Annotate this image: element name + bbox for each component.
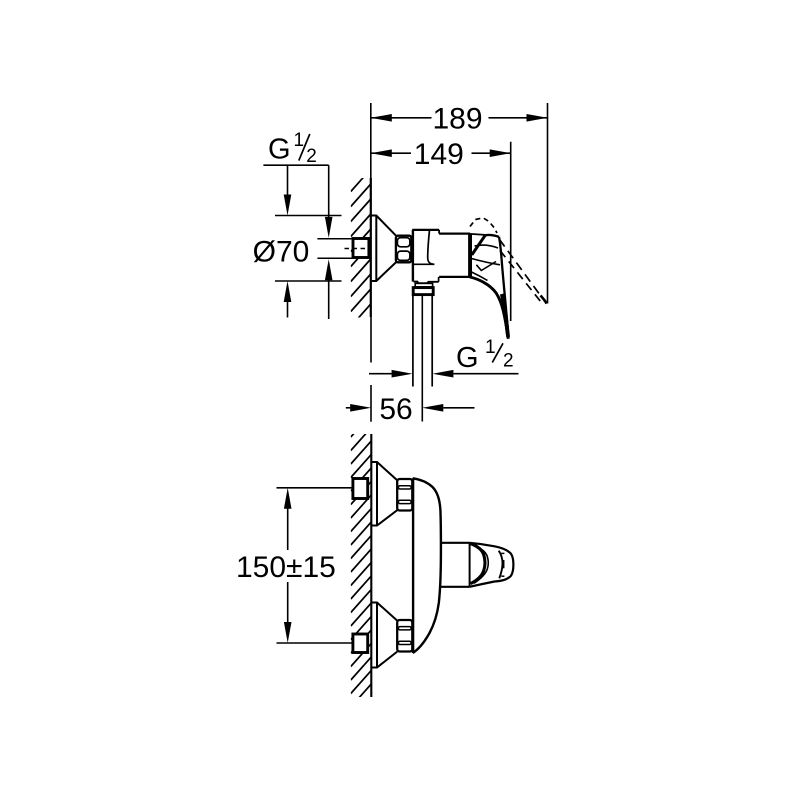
- svg-text:2: 2: [306, 146, 317, 167]
- svg-text:1: 1: [294, 130, 305, 151]
- nipple dashed centerline: [345, 248, 369, 250]
- wall hatching top view: [351, 169, 371, 342]
- G 1/2 leader + thread arrows (points at wall nipple): [263, 164, 328, 166]
- handle inner curves: [475, 245, 499, 248]
- svg-text:56: 56: [379, 393, 412, 426]
- union nut top (front): [397, 479, 412, 511]
- wall nipple pipe: [317, 238, 351, 240]
- handle lever solid: [499, 237, 509, 339]
- escutcheon top (front/side): [371, 462, 397, 526]
- svg-text:Ø70: Ø70: [253, 236, 310, 269]
- svg-text:149: 149: [414, 138, 464, 171]
- stem: [441, 542, 470, 544]
- cartridge junction band: [468, 234, 472, 277]
- dimension 149: [371, 152, 511, 154]
- square union bottom: [353, 634, 368, 653]
- square wall union: [353, 239, 369, 258]
- dimension 189: [371, 117, 547, 119]
- dimension Ø70: [275, 215, 342, 217]
- dashed raised handle: [470, 218, 497, 233]
- svg-text:150±15: 150±15: [236, 551, 336, 584]
- wall hatching bottom view: [351, 414, 372, 721]
- dimension 56: [346, 407, 351, 409]
- union nut (side): [396, 236, 411, 263]
- square union top: [353, 479, 368, 499]
- handle hood: [470, 234, 485, 235]
- 149 extension line: [510, 142, 512, 321]
- svg-text:2: 2: [503, 351, 514, 372]
- body cap section: [412, 230, 414, 282]
- shower outlet below body: [415, 283, 432, 286]
- G 1/2 bottom thread arrows on outlet pipe: [369, 373, 392, 375]
- svg-text:G: G: [456, 342, 479, 374]
- escutcheon (side profile): [371, 216, 396, 282]
- svg-text:1: 1: [485, 337, 496, 358]
- union nut bottom (front): [397, 620, 412, 652]
- dimension 150±15: [277, 487, 353, 489]
- wall face line / extension line left: [370, 103, 372, 178]
- body capsule: [413, 478, 441, 653]
- svg-text:G: G: [268, 134, 291, 166]
- handle cap front: [470, 543, 514, 587]
- svg-text:189: 189: [432, 103, 482, 136]
- wall face line bottom view: [370, 434, 372, 697]
- valve body cylinder: [439, 233, 470, 235]
- escutcheon bottom: [371, 603, 397, 668]
- 189 extension line right: [547, 103, 549, 304]
